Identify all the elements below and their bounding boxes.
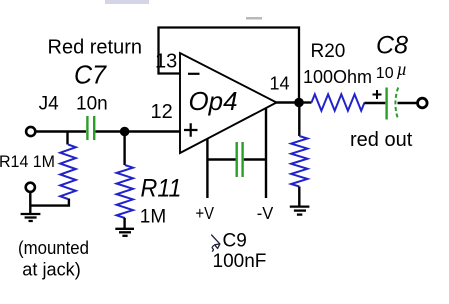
jack J4 sleeve (ground lug) xyxy=(26,183,35,192)
wire: +V supply pin xyxy=(206,139,208,198)
wire: node to R20 xyxy=(299,101,312,103)
non-inverting input plus sign xyxy=(184,123,198,136)
svg-text:J4: J4 xyxy=(39,94,60,115)
svg-text:14: 14 xyxy=(270,74,290,94)
resistor R14 xyxy=(60,132,76,200)
wire: feedback loop from pin 13 to output node xyxy=(159,28,300,101)
wire: C9 left lead xyxy=(207,158,235,160)
capacitor C9 (plates) xyxy=(237,142,243,177)
inverting input minus sign xyxy=(188,73,200,75)
ground (R11) xyxy=(115,229,134,236)
svg-text:-V: -V xyxy=(257,203,274,223)
resistor R11 xyxy=(117,135,133,218)
svg-text:at jack): at jack) xyxy=(22,260,80,280)
node: junction C7 / R11 / pin 12 xyxy=(120,127,130,137)
wire: load resistor to ground xyxy=(298,187,300,207)
label + (C8 polarity) xyxy=(373,90,382,99)
jack J4 (input tip) xyxy=(26,127,35,136)
wire: output node down to load resistor xyxy=(298,103,300,137)
wire: op-amp output to node xyxy=(276,101,296,103)
svg-text:Red return: Red return xyxy=(48,37,143,59)
wire: C8 to output jack xyxy=(398,102,418,104)
ground (output) xyxy=(290,207,310,215)
wire: C9 right lead xyxy=(244,158,266,160)
wire: R20 to C8 xyxy=(365,102,386,104)
svg-text:R14 1M: R14 1M xyxy=(0,152,55,171)
svg-text:C7: C7 xyxy=(74,62,107,90)
ground (at jack) xyxy=(21,214,41,221)
jack output (red out) xyxy=(418,98,428,108)
svg-text:10n: 10n xyxy=(76,94,108,115)
svg-text:12: 12 xyxy=(151,101,173,123)
svg-text:C8: C8 xyxy=(376,32,408,60)
svg-text:100nF: 100nF xyxy=(213,251,267,272)
svg-text:R20: R20 xyxy=(311,41,346,62)
wire: -V supply pin xyxy=(265,108,267,198)
wire: R14 bottom to jack sleeve xyxy=(30,199,69,206)
op-amp U1 Op4 (triangle body) xyxy=(180,53,277,153)
svg-text:13: 13 xyxy=(155,51,177,73)
wire: R11 to ground xyxy=(123,218,125,228)
svg-text:C9: C9 xyxy=(223,230,247,251)
node: output junction xyxy=(294,98,304,108)
resistor R20 xyxy=(312,94,365,110)
svg-text:Op4: Op4 xyxy=(189,86,238,116)
resistor (output to ground) xyxy=(291,136,307,187)
svg-text:(mounted: (mounted xyxy=(18,238,89,258)
wire: C7 to pin 12 node xyxy=(96,130,181,132)
wire: sleeve to ground xyxy=(29,192,31,214)
mouse cursor xyxy=(212,235,220,251)
svg-text:100Ohm: 100Ohm xyxy=(303,67,372,87)
svg-text:red out: red out xyxy=(350,129,413,151)
capacitor C7 (plates) xyxy=(87,116,94,140)
svg-text:+V: +V xyxy=(196,203,215,223)
wire: J4 to C7 xyxy=(36,130,87,132)
svg-text:R11: R11 xyxy=(141,175,182,203)
svg-text:1M: 1M xyxy=(140,206,166,227)
capacitor C8 (polarized) xyxy=(387,88,399,120)
